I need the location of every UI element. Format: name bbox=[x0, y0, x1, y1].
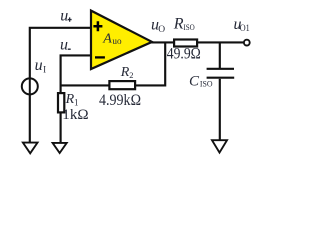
svg-text:O1: O1 bbox=[240, 24, 250, 34]
svg-text:R: R bbox=[173, 16, 184, 33]
svg-text:A: A bbox=[102, 32, 112, 47]
svg-text:1kΩ: 1kΩ bbox=[62, 107, 88, 123]
svg-text:u: u bbox=[35, 57, 43, 74]
svg-text:O: O bbox=[158, 25, 165, 35]
svg-text:uo: uo bbox=[112, 36, 122, 46]
svg-text:49.9Ω: 49.9Ω bbox=[167, 45, 201, 62]
svg-text:u: u bbox=[60, 8, 68, 25]
svg-text:1: 1 bbox=[74, 97, 79, 107]
svg-text:C: C bbox=[189, 74, 200, 90]
svg-text:ISO: ISO bbox=[183, 22, 194, 32]
svg-text:ISO: ISO bbox=[200, 79, 213, 89]
svg-text:u: u bbox=[60, 36, 68, 53]
svg-text:2: 2 bbox=[129, 70, 133, 80]
svg-text:4.99kΩ: 4.99kΩ bbox=[99, 92, 141, 109]
svg-text:I: I bbox=[43, 65, 46, 75]
